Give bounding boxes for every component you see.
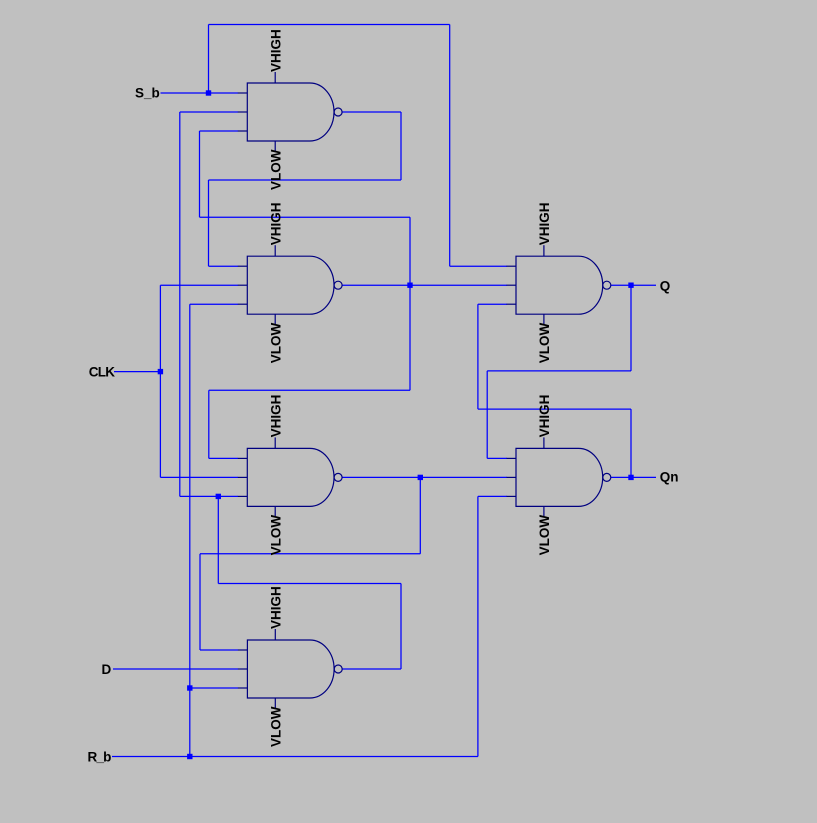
wire Qn feedback vertical <box>630 409 632 477</box>
svg-text:Q: Q <box>660 278 671 293</box>
wire Qn into U5 pin3 <box>478 303 507 305</box>
U3 input pin 3 <box>238 495 248 497</box>
wire N2 horizontal toward U3 <box>209 389 410 391</box>
wire N4 junction drop <box>217 496 219 583</box>
wire Q into U6 pin1 <box>487 457 507 459</box>
NAND gate U6 <box>507 437 611 516</box>
NAND gate U2 <box>238 245 342 324</box>
wire N2 from U2 output to U5 pin2 <box>342 284 507 286</box>
wire Q feedback vertical <box>630 285 632 371</box>
VLOW power stub U1 <box>274 141 276 151</box>
wire N2 vertical to U1 pin3 <box>199 131 201 217</box>
svg-text:VHIGH: VHIGH <box>537 395 552 438</box>
node CLK junction <box>158 369 163 374</box>
svg-text:VLOW: VLOW <box>268 322 283 363</box>
wire R_b bottom horizontal <box>112 756 478 758</box>
VHIGH power stub U1 <box>274 72 276 83</box>
U5 output bubble <box>603 281 611 289</box>
wire Qn from U6 output to label <box>611 476 656 478</box>
U6 output bubble <box>603 473 611 481</box>
node Qn junction <box>628 475 633 480</box>
wire N3 vertical to U4 pin1 <box>199 554 201 650</box>
wire N4 long vertical <box>179 112 181 496</box>
wire Q from U5 output to label <box>611 284 656 286</box>
VHIGH power stub U4 <box>274 629 276 640</box>
U4 input pin 2 <box>238 668 248 670</box>
VHIGH power stub U2 <box>274 245 276 256</box>
wire CLK into U2 pin2 <box>160 284 238 286</box>
wire Q feedback down to U6 <box>486 371 488 459</box>
wire R_b into U4 pin3 <box>190 687 238 689</box>
VLOW power stub U5 <box>543 314 545 324</box>
svg-text:VLOW: VLOW <box>537 322 552 363</box>
wire N1 from U1 output <box>342 111 401 113</box>
wire R_b into U2 pin3 <box>190 303 238 305</box>
wire S_b vertical to U5 <box>449 25 451 267</box>
U2 input pin 1 <box>238 265 248 267</box>
wire N4 vertical to U4 out <box>400 584 402 670</box>
svg-text:D: D <box>102 662 112 677</box>
wire N2 vertical to U3 pin1 <box>208 390 210 458</box>
wire Q feedback horizontal <box>487 370 631 372</box>
wire N3 vertical below junction <box>419 477 421 553</box>
svg-text:Qn: Qn <box>660 470 679 485</box>
svg-text:VLOW: VLOW <box>268 515 283 556</box>
wire N1 into U2 pin1 <box>209 265 239 267</box>
U1 input pin 1 <box>238 92 248 94</box>
wire N2 horizontal to left <box>200 216 411 218</box>
wire N3 into U4 pin1 <box>200 649 238 651</box>
wire R_b right vertical <box>477 496 479 756</box>
U6 input pin 3 <box>507 495 517 497</box>
node R_b junction at U4 pin3 <box>187 685 192 690</box>
VHIGH power stub U6 <box>543 437 545 448</box>
svg-text:CLK: CLK <box>89 364 115 379</box>
node N2 junction <box>407 283 412 288</box>
wire N3 from U3 output to U6 pin2 <box>342 476 507 478</box>
wire N2 into U1 pin3 <box>200 130 239 132</box>
wire N3 horizontal left <box>200 553 420 555</box>
svg-text:R_b: R_b <box>88 749 112 764</box>
wire N2 vertical above junction <box>409 217 411 285</box>
U3 output bubble <box>334 473 342 481</box>
svg-text:VHIGH: VHIGH <box>537 202 552 245</box>
U3 input pin 1 <box>238 457 248 459</box>
wire N1 vertical down <box>400 112 402 180</box>
wire N4 into U1 pin2 <box>180 111 238 113</box>
wire S_b into U5 pin1 <box>450 265 507 267</box>
U1 output bubble <box>334 108 342 116</box>
U4 input pin 3 <box>238 687 248 689</box>
NAND gate U4 <box>238 629 342 708</box>
wire D label to U4 pin2 <box>113 668 238 670</box>
node N4 junction <box>216 494 221 499</box>
svg-text:VHIGH: VHIGH <box>268 395 283 438</box>
VLOW power stub U3 <box>274 506 276 516</box>
U5 input pin 2 <box>507 284 517 286</box>
U2 input pin 3 <box>238 303 248 305</box>
node R_b junction bottom <box>187 754 192 759</box>
wire N2 into U3 pin1 <box>209 457 238 459</box>
NAND gate U1 <box>238 72 342 151</box>
node Q junction <box>628 283 633 288</box>
wire S_b label to junction <box>161 92 209 94</box>
svg-text:VHIGH: VHIGH <box>268 586 283 629</box>
VHIGH power stub U5 <box>543 245 545 256</box>
wire N4 from U4 output <box>342 668 401 670</box>
wire S_b junction up <box>208 25 210 94</box>
U3 input pin 2 <box>238 476 248 478</box>
wire Qn feedback horizontal <box>478 408 631 410</box>
wire N1 vertical to U2 <box>208 180 210 266</box>
wire CLK vertical <box>159 285 161 477</box>
wire N2 vertical below junction <box>409 285 411 390</box>
wire S_b into U1 pin1 <box>209 92 239 94</box>
svg-text:VLOW: VLOW <box>537 515 552 556</box>
NAND gate U3 <box>238 437 342 516</box>
U1 input pin 3 <box>238 130 248 132</box>
node N3 junction <box>418 475 423 480</box>
wire N4 into U3 pin3 <box>180 495 238 497</box>
wire Qn feedback up to U5 <box>477 304 479 409</box>
U5 input pin 3 <box>507 303 517 305</box>
wire N1 horizontal left <box>209 179 402 181</box>
U2 input pin 2 <box>238 284 248 286</box>
wire CLK label to junction <box>114 371 160 373</box>
U4 output bubble <box>334 665 342 673</box>
VLOW power stub U6 <box>543 506 545 516</box>
svg-text:S_b: S_b <box>135 86 160 101</box>
U6 input pin 1 <box>507 457 517 459</box>
VLOW power stub U2 <box>274 314 276 324</box>
wire CLK into U3 pin2 <box>160 476 238 478</box>
U2 output bubble <box>334 281 342 289</box>
wire S_b top horizontal run <box>209 24 450 26</box>
U4 input pin 1 <box>238 649 248 651</box>
wire R_b long vertical <box>189 304 191 756</box>
svg-text:VHIGH: VHIGH <box>268 29 283 72</box>
VHIGH power stub U3 <box>274 437 276 448</box>
U1 input pin 2 <box>238 111 248 113</box>
node S_b junction <box>206 90 211 95</box>
wire R_b into U6 pin3 <box>478 495 507 497</box>
svg-text:VLOW: VLOW <box>268 149 283 190</box>
svg-text:VHIGH: VHIGH <box>268 202 283 245</box>
U6 input pin 2 <box>507 476 517 478</box>
VLOW power stub U4 <box>274 698 276 708</box>
NAND gate U5 <box>507 245 611 324</box>
wire N4 horizontal over U4 <box>218 583 401 585</box>
U5 input pin 1 <box>507 265 517 267</box>
svg-text:VLOW: VLOW <box>268 706 283 747</box>
